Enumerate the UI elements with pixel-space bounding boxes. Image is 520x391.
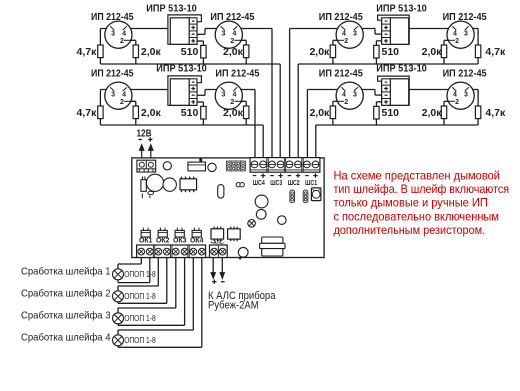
svg-text:Сработка шлейфа 2: Сработка шлейфа 2 (21, 288, 111, 300)
svg-text:510: 510 (181, 107, 199, 119)
svg-text:2,0к: 2,0к (309, 107, 330, 119)
svg-text:4: 4 (342, 30, 346, 37)
svg-text:2: 2 (120, 38, 124, 45)
svg-text:3: 3 (222, 30, 226, 37)
svg-text:2: 2 (230, 38, 234, 45)
svg-text:ИП 212-45: ИП 212-45 (215, 68, 259, 80)
svg-text:4,7к: 4,7к (485, 107, 506, 119)
svg-text:3: 3 (464, 30, 468, 37)
svg-text:тип шлейфа. В шлейф включаются: тип шлейфа. В шлейф включаются (334, 182, 510, 196)
svg-text:ИПР 513-10: ИПР 513-10 (146, 3, 197, 15)
svg-text:2,0к: 2,0к (309, 46, 330, 58)
svg-text:с последовательно включенным: с последовательно включенным (334, 209, 499, 223)
svg-text:3: 3 (111, 30, 115, 37)
svg-text:2,0к: 2,0к (223, 107, 244, 119)
svg-text:ОПОП 1-8: ОПОП 1-8 (124, 291, 156, 301)
svg-text:4: 4 (453, 91, 457, 98)
svg-text:ОПОП 1-8: ОПОП 1-8 (124, 313, 156, 323)
svg-text:ОПОП 1-8: ОПОП 1-8 (124, 269, 156, 279)
svg-text:ИПР 513-10: ИПР 513-10 (376, 3, 427, 15)
svg-text:2: 2 (344, 38, 348, 45)
svg-text:2: 2 (344, 99, 348, 106)
svg-text:ШС2: ШС2 (288, 178, 300, 187)
svg-text:ОК1: ОК1 (139, 236, 153, 245)
svg-text:ИП 212-45: ИП 212-45 (443, 68, 487, 80)
svg-text:ОК3: ОК3 (173, 236, 187, 245)
svg-text:Сработка шлейфа 4: Сработка шлейфа 4 (21, 332, 111, 344)
svg-text:4: 4 (233, 91, 237, 98)
svg-text:4,7к: 4,7к (77, 107, 98, 119)
svg-text:3: 3 (353, 91, 357, 98)
svg-text:ИПР 513-10: ИПР 513-10 (156, 63, 207, 75)
svg-text:510: 510 (382, 46, 400, 58)
svg-text:ИП 212-45: ИП 212-45 (91, 68, 134, 80)
svg-text:только дымовые и ручные ИП: только дымовые и ручные ИП (334, 196, 488, 210)
svg-text:4,7к: 4,7к (485, 46, 506, 58)
svg-text:ИП 212-45: ИП 212-45 (319, 68, 363, 80)
svg-text:2: 2 (120, 99, 124, 106)
svg-text:ИП 212-45: ИП 212-45 (91, 11, 134, 23)
svg-text:ШС3: ШС3 (270, 178, 282, 187)
svg-text:3: 3 (353, 30, 357, 37)
svg-text:3: 3 (464, 91, 468, 98)
svg-text:2: 2 (455, 38, 459, 45)
svg-text:На схеме представлен дымовой: На схеме представлен дымовой (334, 168, 501, 182)
svg-text:2,0к: 2,0к (223, 46, 244, 58)
svg-text:ОПОП 1-8: ОПОП 1-8 (124, 335, 156, 345)
svg-text:4: 4 (453, 30, 457, 37)
svg-text:2,0к: 2,0к (141, 107, 162, 119)
svg-text:ИП 212-45: ИП 212-45 (210, 11, 254, 23)
svg-text:ОК4: ОК4 (190, 236, 204, 245)
svg-text:2,0к: 2,0к (422, 46, 443, 58)
svg-text:3: 3 (111, 91, 115, 98)
svg-text:510: 510 (181, 46, 199, 58)
svg-text:510: 510 (382, 107, 400, 119)
svg-text:2: 2 (230, 99, 234, 106)
svg-text:ИП 212-45: ИП 212-45 (443, 11, 487, 23)
svg-text:4,7к: 4,7к (77, 46, 98, 58)
svg-text:2,0к: 2,0к (141, 46, 162, 58)
svg-text:4: 4 (342, 91, 346, 98)
svg-text:3: 3 (222, 91, 226, 98)
svg-text:ОК2: ОК2 (156, 236, 170, 245)
svg-text:Сработка шлейфа 3: Сработка шлейфа 3 (21, 310, 111, 322)
svg-text:4: 4 (233, 30, 237, 37)
svg-text:12В: 12В (137, 128, 152, 139)
svg-text:Сработка шлейфа 1: Сработка шлейфа 1 (21, 266, 111, 278)
svg-text:ШС1: ШС1 (305, 178, 317, 187)
svg-text:4: 4 (122, 30, 126, 37)
svg-text:4: 4 (122, 91, 126, 98)
svg-text:ИП 212-45: ИП 212-45 (319, 11, 363, 23)
svg-text:Рубеж-2АМ: Рубеж-2АМ (208, 299, 259, 311)
svg-text:дополнительным резистором.: дополнительным резистором. (334, 223, 486, 237)
svg-text:2,0к: 2,0к (422, 107, 443, 119)
svg-text:ШС4: ШС4 (253, 178, 266, 187)
svg-text:2: 2 (455, 99, 459, 106)
svg-text:ИПР 513-10: ИПР 513-10 (376, 63, 427, 75)
